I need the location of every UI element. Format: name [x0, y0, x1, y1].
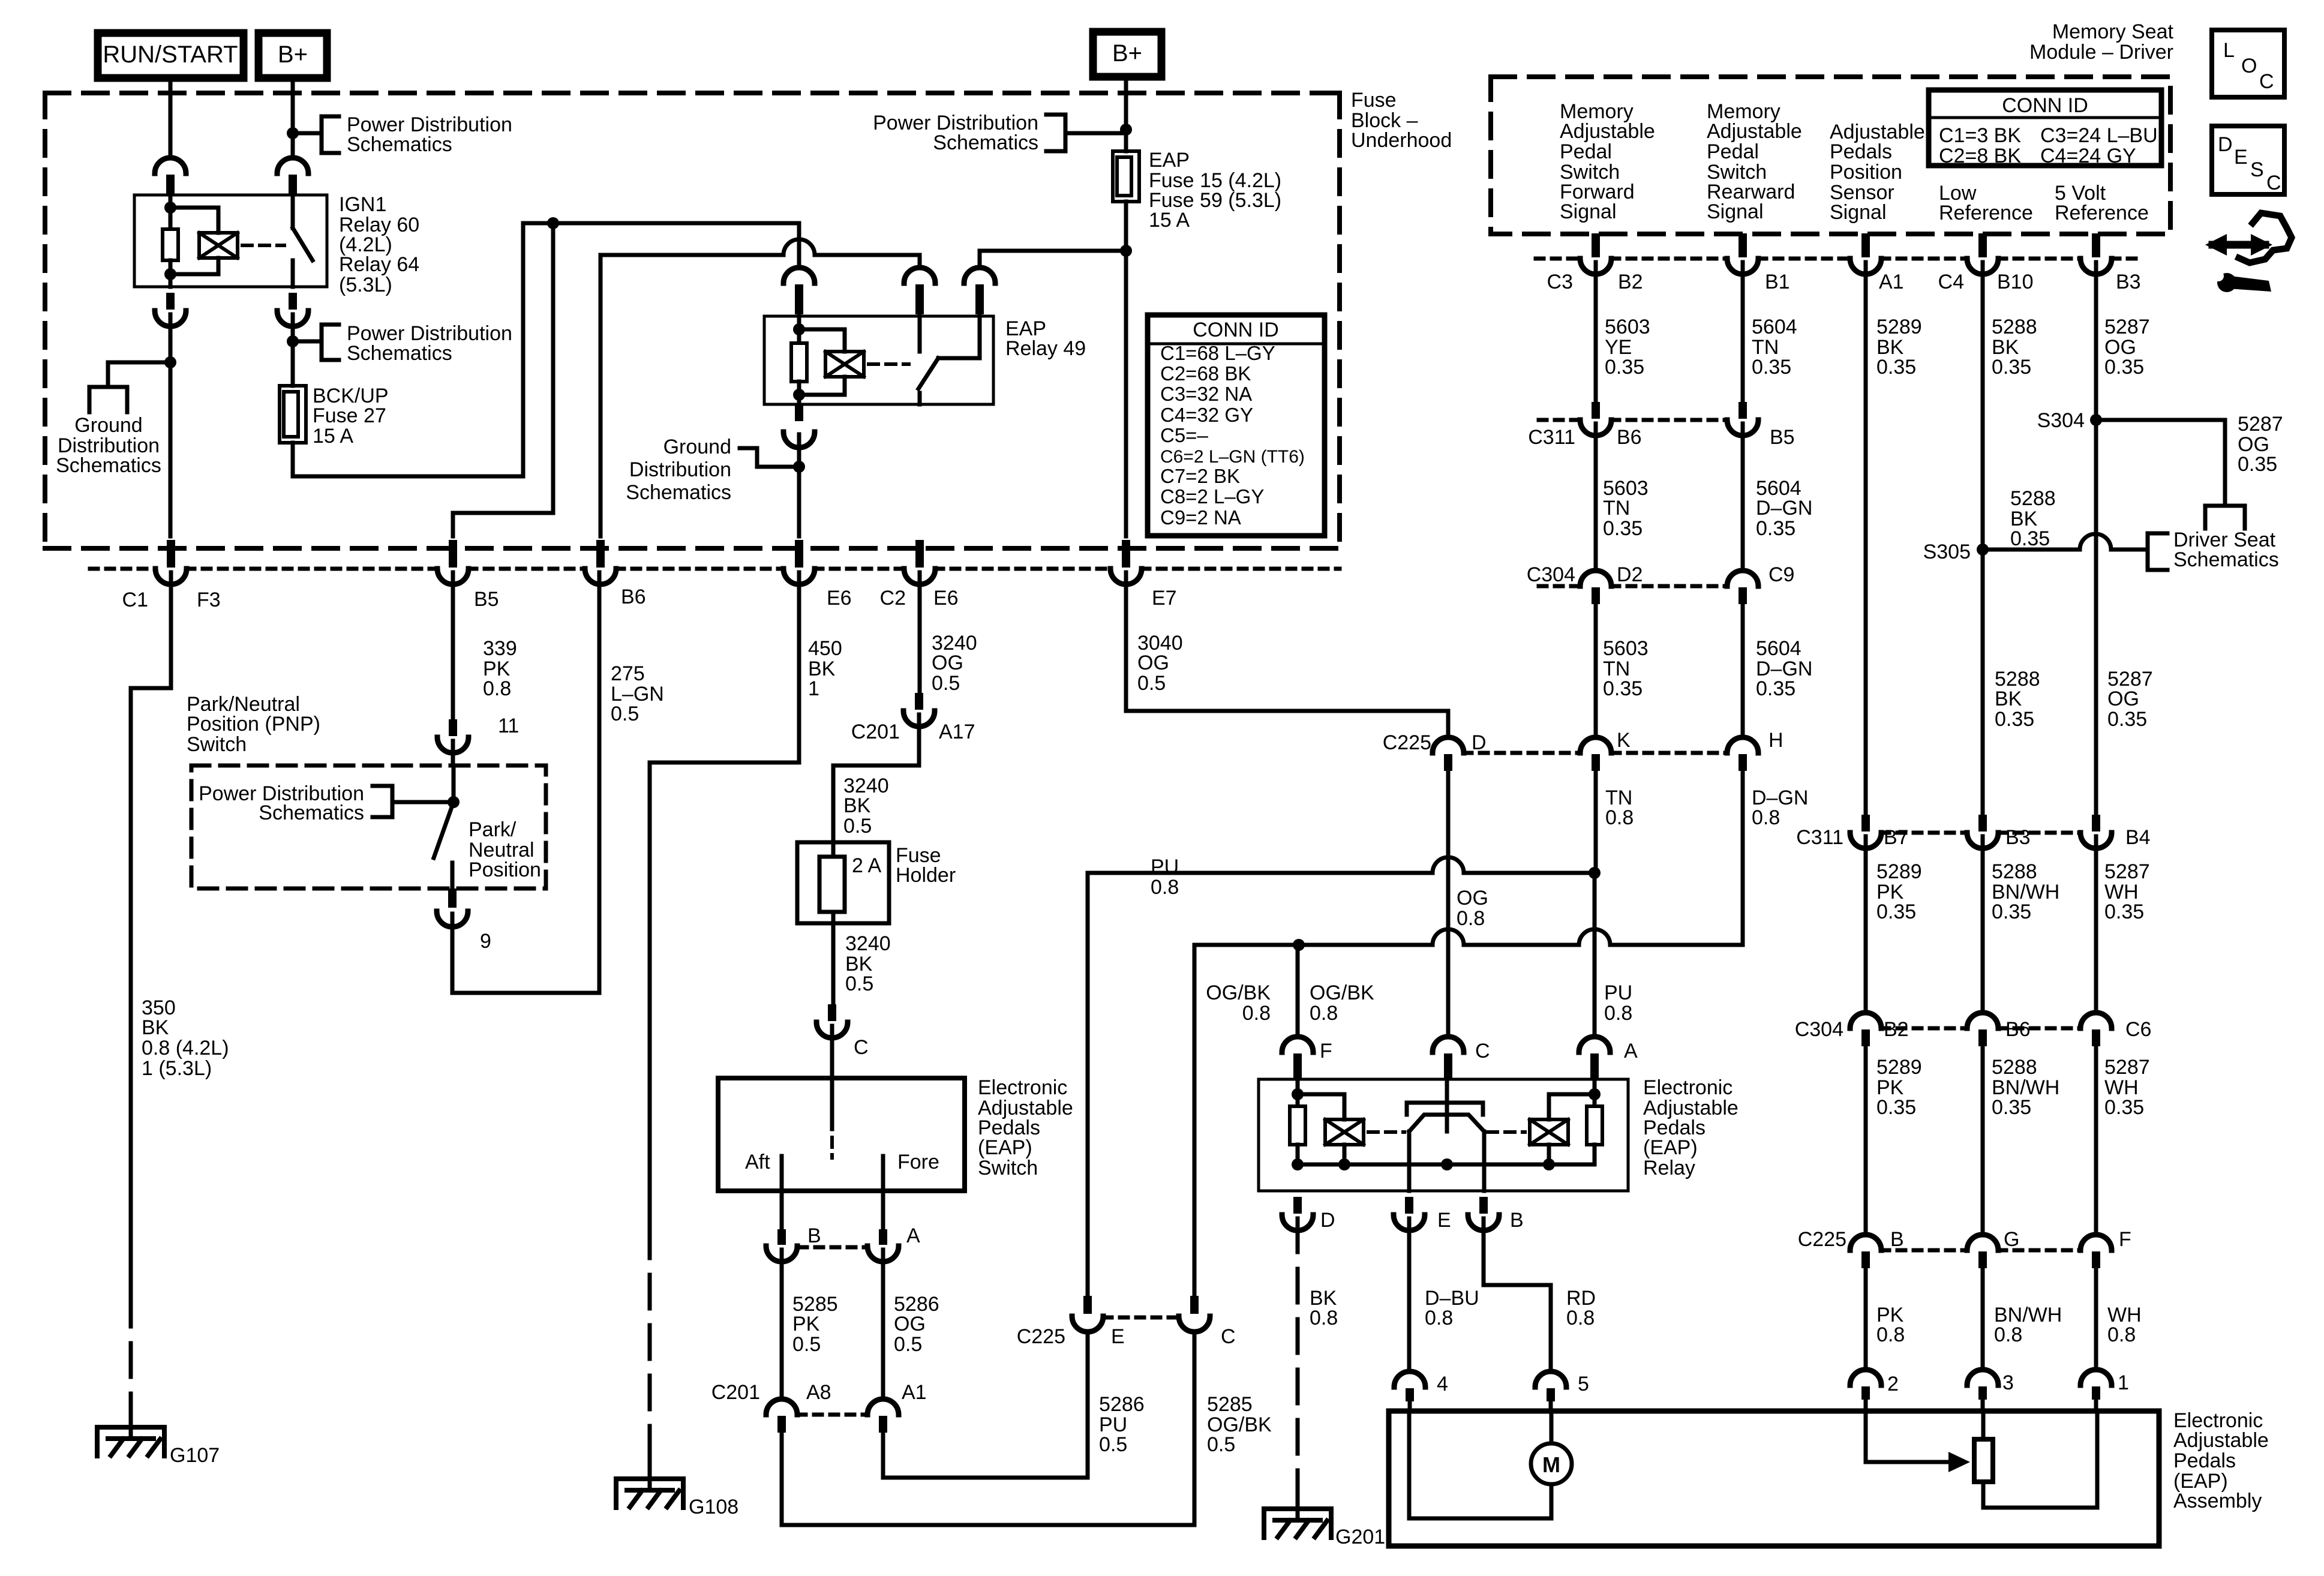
- svg-text:C: C: [2259, 70, 2274, 93]
- svg-text:M: M: [1542, 1452, 1560, 1477]
- svg-text:B2: B2: [1618, 271, 1643, 293]
- connector B of EAP switch: [777, 1229, 786, 1245]
- svg-text:A: A: [906, 1224, 920, 1247]
- svg-text:EAP: EAP: [1149, 149, 1190, 172]
- wire IGN1 out right / BCK UP fuse feed: [291, 314, 295, 386]
- svg-text:B+: B+: [278, 41, 308, 68]
- connector 5: [1547, 1388, 1555, 1401]
- svg-text:C2=68 BK: C2=68 BK: [1160, 362, 1251, 385]
- wire from BCK/UP fuse to EAP relay feed: [293, 223, 799, 476]
- connector EAP relay pin F: [1293, 1053, 1302, 1080]
- svg-text:0.8: 0.8: [1752, 806, 1780, 829]
- svg-text:9: 9: [480, 930, 491, 953]
- wire common rail: [1298, 1163, 1595, 1167]
- wires to EAP assembly: [1864, 1268, 1868, 1368]
- connector 4: [1406, 1388, 1414, 1401]
- relay EAP Relay 49 box: [764, 316, 993, 404]
- connector IGN1 socket pin 4 (bottom right): [289, 293, 297, 310]
- svg-text:5289: 5289: [1876, 860, 1922, 883]
- svg-text:0.35: 0.35: [1992, 356, 2031, 379]
- svg-text:C: C: [854, 1036, 869, 1059]
- motor circuit wires: [1408, 1401, 1412, 1411]
- connector EAP relay pin E: [1405, 1197, 1413, 1214]
- connector C of EAP switch: [828, 1004, 836, 1021]
- wire B+ to EAP relay common: [980, 251, 1126, 266]
- svg-text:IGN1: IGN1: [339, 193, 386, 216]
- module Memory Seat dashed box: [1491, 77, 2170, 234]
- connector IGN1 socket pin 2 (top right): [289, 175, 297, 195]
- connector C311/B5: [1739, 402, 1747, 419]
- connector 2: [1861, 1386, 1870, 1400]
- wires to C225: [1864, 1046, 1868, 1233]
- svg-text:0.35: 0.35: [1603, 677, 1643, 700]
- svg-text:15 A: 15 A: [313, 425, 353, 448]
- wire 5603 TN lower: [1594, 604, 1598, 736]
- wire 5285 PK: [780, 1250, 784, 1398]
- svg-text:D: D: [2218, 133, 2233, 156]
- svg-text:0.35: 0.35: [1603, 517, 1643, 540]
- ground G108: [648, 1464, 652, 1490]
- svg-text:C2: C2: [880, 587, 906, 610]
- connector EAP relay socket pin (switch top): [915, 284, 924, 314]
- svg-text:5288: 5288: [1992, 1056, 2037, 1079]
- connector 3: [1978, 1386, 1987, 1400]
- svg-text:Position (PNP): Position (PNP): [187, 713, 320, 736]
- svg-text:0.5: 0.5: [792, 1333, 821, 1356]
- svg-text:Adjustable: Adjustable: [2173, 1429, 2269, 1452]
- wire PU line to EAP relay A: [1088, 871, 1433, 875]
- svg-text:B10: B10: [1997, 271, 2034, 293]
- connector C225/G: [1978, 1251, 1987, 1268]
- svg-text:OG: OG: [894, 1313, 926, 1335]
- svg-text:Switch: Switch: [978, 1157, 1038, 1179]
- svg-text:0.8: 0.8: [1604, 1002, 1632, 1025]
- svg-text:0.5: 0.5: [1099, 1433, 1127, 1456]
- switch EAP relay: [918, 316, 922, 352]
- connector module pin x=3494: [2092, 233, 2100, 257]
- switch blade trapezoid: [1409, 1115, 1484, 1131]
- svg-text:B3: B3: [2005, 826, 2031, 849]
- svg-text:5285: 5285: [1207, 1393, 1253, 1416]
- svg-text:E: E: [1111, 1325, 1125, 1348]
- svg-text:OG: OG: [2107, 688, 2139, 710]
- svg-text:B6: B6: [1617, 426, 1642, 449]
- connector C311/B6: [1592, 402, 1600, 419]
- wire coil1 branch: [1298, 1094, 1344, 1119]
- svg-text:E6: E6: [933, 587, 959, 610]
- svg-text:B5: B5: [474, 588, 499, 611]
- label bracket Power Distribution Schematics (right): [1046, 115, 1065, 151]
- wire coil2 feed: [1593, 1079, 1597, 1106]
- svg-text:0.35: 0.35: [2010, 527, 2050, 550]
- svg-text:0.35: 0.35: [1756, 677, 1795, 700]
- wire B6 to EAP relay switch (275 L-GN riser top): [599, 255, 603, 536]
- svg-text:5288: 5288: [2010, 487, 2056, 510]
- wire 5604 TN: [1741, 262, 1745, 403]
- svg-text:Schematics: Schematics: [259, 801, 364, 824]
- svg-text:OG: OG: [1137, 652, 1169, 674]
- wire EAP relay F leg: [1296, 945, 1300, 1035]
- svg-text:B6: B6: [621, 586, 646, 608]
- svg-text:2: 2: [1887, 1373, 1899, 1395]
- resistor IGN1 internal: [163, 229, 178, 260]
- svg-text:3240: 3240: [845, 932, 891, 955]
- svg-text:275: 275: [611, 662, 645, 685]
- svg-text:5288: 5288: [1992, 860, 2037, 883]
- svg-text:K: K: [1617, 729, 1631, 752]
- svg-text:5289: 5289: [1876, 1056, 1922, 1079]
- harness dotted line E-C: [1104, 1316, 1178, 1320]
- connector C311/B3: [1978, 815, 1987, 831]
- svg-text:Schematics: Schematics: [2173, 548, 2279, 571]
- svg-text:0.5: 0.5: [1137, 672, 1166, 695]
- wire coil branch EAP relay: [799, 329, 845, 352]
- svg-text:0.35: 0.35: [2107, 708, 2147, 731]
- svg-text:5603: 5603: [1603, 637, 1649, 660]
- svg-text:0.8: 0.8: [1151, 876, 1179, 899]
- svg-text:Electronic: Electronic: [978, 1076, 1067, 1099]
- svg-text:S305: S305: [1923, 541, 1971, 563]
- svg-text:0.35: 0.35: [2104, 356, 2144, 379]
- connector C304/C9: [1739, 587, 1747, 604]
- svg-text:Schematics: Schematics: [347, 342, 452, 365]
- svg-text:D: D: [1472, 731, 1487, 754]
- connector EAP relay socket pin (coil): [795, 284, 803, 314]
- svg-text:B+: B+: [1112, 40, 1142, 67]
- wire wiper arrow inside assembly: [1864, 1411, 1868, 1462]
- wire branch down to B5: [453, 223, 553, 536]
- svg-text:B4: B4: [2125, 826, 2151, 849]
- coil EAP relay 2: [1530, 1119, 1568, 1145]
- connector C304/B2: [1861, 1029, 1870, 1046]
- connector C201/A17: [915, 693, 923, 710]
- connector B6: [596, 540, 605, 568]
- fuse block - underhood dashed border: [45, 91, 1340, 95]
- svg-text:OG/BK: OG/BK: [1310, 981, 1374, 1004]
- svg-text:PU: PU: [1151, 855, 1179, 878]
- svg-text:C5=–: C5=–: [1160, 424, 1208, 446]
- connector A of EAP switch: [879, 1229, 887, 1245]
- harness dotted line B-A: [799, 1245, 866, 1250]
- wire 3040 OG to C225 D: [1126, 572, 1448, 736]
- svg-text:C225: C225: [1383, 731, 1431, 754]
- svg-text:F: F: [2119, 1228, 2131, 1251]
- svg-text:11: 11: [498, 715, 519, 737]
- table CONN ID (memory seat module): [1929, 90, 2161, 166]
- wire dashed to G108: [648, 1224, 652, 1473]
- svg-text:Pedals: Pedals: [1830, 140, 1892, 163]
- svg-text:Fore: Fore: [897, 1151, 939, 1173]
- svg-text:A: A: [1624, 1040, 1638, 1062]
- svg-text:5: 5: [1578, 1373, 1589, 1395]
- svg-text:Pedal: Pedal: [1560, 140, 1612, 163]
- svg-text:B1: B1: [1765, 271, 1790, 293]
- switch Electronic Adjustable Pedals (EAP) box: [718, 1078, 965, 1191]
- svg-text:C8=2 L–GY: C8=2 L–GY: [1160, 485, 1264, 508]
- svg-text:0.35: 0.35: [1605, 356, 1644, 379]
- svg-text:Pedals: Pedals: [2173, 1449, 2236, 1472]
- svg-text:C304: C304: [1527, 563, 1575, 586]
- connector module pin x=3110: [1861, 233, 1870, 257]
- svg-text:450: 450: [808, 637, 842, 660]
- wire B+ (right) feed: [1124, 77, 1128, 151]
- svg-text:C: C: [1475, 1040, 1490, 1062]
- svg-text:CONN ID: CONN ID: [1193, 319, 1279, 341]
- svg-text:5287: 5287: [2238, 413, 2283, 436]
- connector E6 (450 BK): [795, 540, 803, 568]
- wire D-BU 0.8 E to 4: [1407, 1218, 1412, 1370]
- svg-text:Switch: Switch: [187, 733, 247, 756]
- svg-text:0.8: 0.8: [1457, 907, 1485, 930]
- connector EAP relay pin D: [1293, 1197, 1302, 1214]
- svg-text:Memory Seat: Memory Seat: [2052, 20, 2174, 43]
- svg-text:PK: PK: [792, 1313, 820, 1335]
- svg-text:C7=2 BK: C7=2 BK: [1160, 465, 1240, 487]
- svg-text:Fuse 27: Fuse 27: [313, 404, 386, 427]
- wire PU riser E to relay line: [1086, 873, 1090, 1295]
- svg-text:G201: G201: [1335, 1526, 1385, 1548]
- svg-text:0.5: 0.5: [894, 1333, 922, 1356]
- svg-text:C4=24 GY: C4=24 GY: [2040, 145, 2136, 167]
- svg-text:C225: C225: [1017, 1325, 1065, 1348]
- label bracket Power Distribution Schematics (PNP): [373, 786, 392, 817]
- connector module pin x=2905: [1739, 233, 1747, 257]
- svg-text:Signal: Signal: [1830, 201, 1887, 224]
- svg-text:Schematics: Schematics: [933, 131, 1038, 154]
- svg-text:0.35: 0.35: [1876, 900, 1916, 923]
- svg-text:OG: OG: [1457, 887, 1488, 909]
- wire 3240 BK to connector C: [831, 923, 836, 1003]
- svg-text:5287: 5287: [2104, 1056, 2150, 1079]
- svg-text:C9=2 NA: C9=2 NA: [1160, 506, 1241, 529]
- wire EAP relay out to E6: [797, 434, 801, 536]
- svg-text:C225: C225: [1798, 1228, 1846, 1251]
- svg-text:C4: C4: [1938, 271, 1964, 293]
- junction S305: [1977, 544, 1989, 556]
- svg-text:C4=32 GY: C4=32 GY: [1160, 404, 1253, 426]
- svg-text:B5: B5: [1770, 426, 1795, 449]
- svg-text:0.8: 0.8: [1566, 1307, 1595, 1329]
- switch contact PNP: [451, 863, 455, 888]
- svg-text:0.5: 0.5: [843, 815, 872, 837]
- svg-text:Ground: Ground: [663, 436, 731, 458]
- potentiometer EAP position sensor: [1974, 1439, 1993, 1482]
- svg-text:5287: 5287: [2104, 860, 2150, 883]
- connector 11 into PNP switch: [449, 719, 457, 736]
- wire pot to pin 1: [1983, 1411, 2097, 1508]
- svg-text:0.35: 0.35: [1992, 900, 2031, 923]
- wire PNP feed: [452, 766, 456, 802]
- svg-text:5288: 5288: [1992, 316, 2037, 338]
- svg-text:C1: C1: [122, 589, 148, 611]
- svg-text:B7: B7: [1884, 826, 1909, 849]
- wire 3240 BK to fuse holder: [833, 715, 919, 842]
- assembly Electronic Adjustable Pedals (EAP) box: [1389, 1411, 2159, 1546]
- wires 5289 PK / 5288 BN-WH / 5287 WH: [1864, 836, 1868, 1011]
- wire D-GN 0.8 H leg: [1741, 771, 1745, 945]
- box LOC: [2212, 30, 2284, 97]
- svg-text:C3: C3: [1547, 271, 1573, 293]
- svg-text:0.8: 0.8: [1310, 1002, 1338, 1025]
- svg-text:Adjustable: Adjustable: [1560, 120, 1655, 143]
- connector EAP relay pin C: [1444, 1053, 1452, 1080]
- wire 350 BK from C1/F3 down: [131, 572, 171, 1293]
- svg-text:Distribution: Distribution: [629, 458, 731, 481]
- svg-text:A1: A1: [1879, 271, 1904, 293]
- wire 5289 BK from A1: [1864, 262, 1868, 816]
- svg-text:C6=2 L–GN (TT6): C6=2 L–GN (TT6): [1160, 447, 1305, 467]
- wire 5604 D-GN lower: [1741, 604, 1745, 736]
- wire 5286 PU from A1 to C225 E: [883, 1334, 1088, 1478]
- svg-text:(EAP): (EAP): [978, 1136, 1032, 1159]
- svg-text:H: H: [1768, 729, 1783, 752]
- switch contact Aft: [780, 1156, 784, 1191]
- svg-text:F3: F3: [197, 589, 221, 611]
- svg-text:Fuse: Fuse: [1351, 89, 1397, 112]
- wire Aft out: [780, 1191, 784, 1230]
- svg-text:D: D: [1320, 1209, 1335, 1232]
- wire RUN/START feed: [169, 78, 173, 155]
- svg-text:0.8: 0.8: [2107, 1323, 2136, 1346]
- resistor EAP relay internal: [791, 343, 807, 382]
- label bracket Power Distribution Schematics (top): [322, 116, 339, 153]
- wire IGN1 out left: [169, 314, 173, 536]
- connector IGN1 socket pin 1 (top left): [166, 175, 175, 195]
- svg-text:0.35: 0.35: [1756, 517, 1795, 540]
- svg-text:E6: E6: [827, 587, 852, 610]
- svg-text:0.35: 0.35: [1752, 356, 1791, 379]
- svg-text:CONN ID: CONN ID: [2002, 94, 2088, 117]
- svg-text:OG: OG: [932, 652, 963, 674]
- svg-text:L: L: [2223, 39, 2235, 62]
- wire coil2 branch: [1549, 1094, 1595, 1119]
- switch outputs: [1407, 1131, 1412, 1191]
- svg-text:G108: G108: [689, 1496, 738, 1518]
- svg-text:Signal: Signal: [1707, 200, 1764, 223]
- svg-text:B: B: [1510, 1209, 1524, 1232]
- power tag B+ (left): [259, 33, 327, 78]
- wire PU to relay A: [1593, 873, 1597, 1035]
- svg-text:0.8: 0.8: [1605, 806, 1634, 829]
- svg-text:TN: TN: [1603, 497, 1630, 520]
- wire S305 to driver seat schematics: [1983, 548, 2080, 552]
- svg-text:Module – Driver: Module – Driver: [2029, 41, 2173, 64]
- svg-text:D2: D2: [1617, 563, 1643, 586]
- svg-text:D–GN: D–GN: [1756, 497, 1812, 520]
- svg-text:A17: A17: [939, 721, 975, 743]
- svg-text:5287: 5287: [2104, 316, 2150, 338]
- svg-text:0.35: 0.35: [2104, 1096, 2144, 1119]
- wire coil feed inside IGN1: [169, 195, 173, 229]
- label bracket Power Distribution Schematics (mid): [322, 325, 339, 360]
- wire 5604 D-GN: [1741, 424, 1745, 568]
- switch wiper EAP: [830, 1078, 834, 1129]
- connector module pin x=2660: [1592, 233, 1600, 257]
- connector EAP relay pin B: [1479, 1197, 1488, 1214]
- connector C225/F: [2092, 1251, 2100, 1268]
- svg-text:4: 4: [1437, 1373, 1448, 1395]
- box DESC: [2212, 126, 2284, 194]
- svg-text:C1=3 BK: C1=3 BK: [1939, 124, 2021, 147]
- svg-text:OG/BK: OG/BK: [1206, 981, 1271, 1004]
- resistor EAP relay coil2: [1587, 1106, 1602, 1145]
- svg-text:15 A: 15 A: [1149, 209, 1190, 232]
- svg-text:G107: G107: [170, 1444, 220, 1467]
- svg-text:5286: 5286: [1099, 1393, 1145, 1416]
- connector C2/E6: [915, 540, 924, 568]
- svg-text:(5.3L): (5.3L): [339, 274, 392, 296]
- connector E7: [1122, 540, 1130, 568]
- fuse 2A element: [819, 857, 845, 912]
- connector module pin x=3305: [1978, 233, 1987, 257]
- svg-text:Relay 64: Relay 64: [339, 253, 419, 276]
- svg-text:Position: Position: [469, 858, 541, 881]
- wire coil branch IGN1: [170, 208, 218, 233]
- svg-text:C6: C6: [2125, 1018, 2151, 1041]
- connector C225/E: [1083, 1296, 1092, 1314]
- switch contact Fore: [881, 1156, 885, 1191]
- svg-text:Aft: Aft: [745, 1151, 770, 1173]
- connector C201/A1: [879, 1416, 887, 1433]
- wire coil1 feed: [1296, 1079, 1300, 1106]
- harness dotted line A8-A1: [798, 1413, 867, 1417]
- svg-text:S: S: [2250, 158, 2264, 181]
- label bracket Driver Seat Schematics (S305): [2148, 533, 2167, 570]
- svg-text:Ground: Ground: [74, 414, 142, 437]
- wire OG/BK riser C to relay line: [1193, 945, 1197, 1295]
- svg-text:C: C: [2266, 172, 2281, 194]
- svg-text:E: E: [2234, 146, 2248, 169]
- harness dotted line under module: [1536, 257, 1580, 261]
- connector C225/C: [1190, 1296, 1199, 1314]
- svg-text:Reference: Reference: [2055, 202, 2149, 224]
- svg-text:Reference: Reference: [1939, 202, 2033, 224]
- svg-text:Pedal: Pedal: [1707, 140, 1759, 163]
- wire TN 0.8 K to junction: [1594, 771, 1598, 873]
- svg-text:1: 1: [808, 677, 819, 700]
- actuator dashed link EAP relay: [869, 362, 909, 366]
- fuse holder box: [797, 842, 889, 923]
- wire coil feed inside EAP relay: [797, 316, 801, 343]
- svg-text:Position: Position: [1830, 161, 1902, 184]
- svg-text:C311: C311: [1796, 826, 1843, 849]
- wire 5603 TN: [1594, 424, 1598, 568]
- wire 5285 OG/BK from A8 to C225 C: [782, 1334, 1194, 1525]
- svg-text:0.8: 0.8: [1994, 1323, 2022, 1346]
- connector C1/F3: [167, 540, 175, 568]
- power tag RUN/START: [98, 33, 244, 78]
- svg-text:Schematics: Schematics: [56, 454, 161, 477]
- svg-text:O: O: [2241, 55, 2257, 77]
- logo outline: [2239, 213, 2292, 263]
- svg-text:1: 1: [2118, 1371, 2129, 1394]
- connector IGN1 socket pin 3 (bottom left): [166, 293, 175, 310]
- wire BK 0.8 dashed to G201: [1296, 1218, 1300, 1503]
- connector C225/H: [1739, 754, 1747, 771]
- switch Park/Neutral Position dashed box: [191, 766, 546, 888]
- svg-text:BK: BK: [142, 1016, 169, 1039]
- resistor EAP relay coil1: [1290, 1106, 1305, 1145]
- svg-text:B3: B3: [2116, 271, 2141, 293]
- svg-text:B: B: [807, 1224, 821, 1247]
- svg-text:C1=68 L–GY: C1=68 L–GY: [1160, 342, 1275, 364]
- svg-text:Signal: Signal: [1560, 200, 1617, 223]
- connector C225/D: [1444, 754, 1452, 771]
- svg-text:Park/: Park/: [469, 818, 517, 841]
- svg-text:5604: 5604: [1752, 316, 1797, 338]
- svg-text:5289: 5289: [1876, 316, 1922, 338]
- svg-text:Holder: Holder: [896, 864, 956, 887]
